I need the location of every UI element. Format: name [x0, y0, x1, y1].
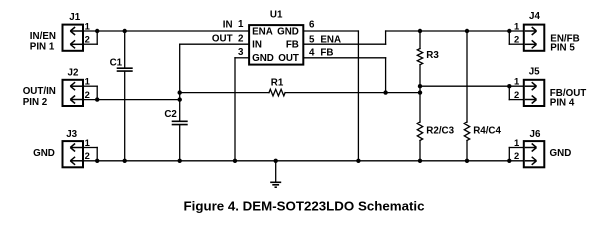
svg-text:1: 1 — [85, 137, 90, 148]
svg-text:J2: J2 — [68, 68, 79, 79]
svg-text:PIN 2: PIN 2 — [23, 97, 48, 108]
svg-text:4: 4 — [309, 47, 315, 58]
svg-text:OUT: OUT — [212, 34, 233, 45]
svg-text:6: 6 — [309, 20, 315, 31]
svg-text:ENA: ENA — [320, 34, 341, 45]
svg-text:PIN 5: PIN 5 — [550, 42, 575, 53]
svg-text:2: 2 — [514, 89, 519, 100]
svg-text:J6: J6 — [530, 129, 541, 140]
svg-text:1: 1 — [85, 76, 90, 87]
svg-text:1: 1 — [238, 19, 244, 30]
svg-text:J5: J5 — [529, 67, 540, 78]
svg-text:ENA: ENA — [252, 27, 273, 38]
svg-text:R4/C4: R4/C4 — [473, 125, 501, 136]
svg-text:Figure 4. DEM-SOT223LDO Schema: Figure 4. DEM-SOT223LDO Schematic — [184, 199, 425, 214]
svg-text:5: 5 — [309, 34, 315, 45]
svg-text:3: 3 — [238, 47, 244, 58]
svg-text:2: 2 — [514, 150, 519, 161]
svg-text:1: 1 — [514, 76, 519, 87]
svg-text:2: 2 — [85, 34, 90, 45]
svg-text:GND: GND — [550, 148, 572, 159]
svg-text:PIN 1: PIN 1 — [30, 41, 55, 52]
svg-text:2: 2 — [85, 150, 90, 161]
svg-text:C1: C1 — [110, 58, 123, 69]
svg-text:U1: U1 — [270, 10, 283, 21]
svg-text:1: 1 — [85, 21, 90, 32]
svg-text:J1: J1 — [69, 12, 80, 23]
svg-text:PIN 4: PIN 4 — [550, 97, 575, 108]
svg-text:R3: R3 — [426, 50, 439, 61]
svg-text:OUT/IN: OUT/IN — [23, 86, 56, 97]
svg-text:R2/C3: R2/C3 — [426, 125, 454, 136]
svg-text:J4: J4 — [529, 11, 540, 22]
svg-text:IN: IN — [223, 20, 233, 31]
svg-text:2: 2 — [514, 34, 519, 45]
svg-text:R1: R1 — [271, 78, 284, 89]
svg-text:FB: FB — [286, 39, 299, 50]
svg-text:2: 2 — [238, 34, 244, 45]
svg-text:GND: GND — [252, 53, 274, 64]
svg-text:1: 1 — [514, 21, 519, 32]
svg-text:1: 1 — [514, 137, 519, 148]
svg-text:C2: C2 — [164, 109, 177, 120]
svg-text:FB: FB — [320, 47, 333, 58]
svg-text:GND: GND — [277, 27, 299, 38]
svg-text:OUT: OUT — [278, 53, 299, 64]
svg-text:GND: GND — [33, 148, 55, 159]
svg-text:IN: IN — [252, 39, 262, 50]
svg-text:J3: J3 — [66, 129, 77, 140]
svg-text:2: 2 — [85, 89, 90, 100]
